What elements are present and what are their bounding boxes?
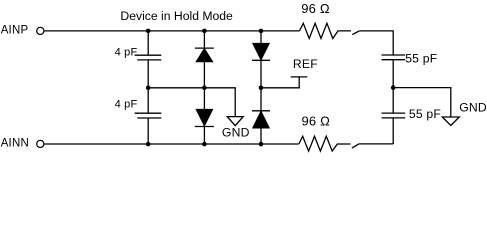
wire bottom rail AINN: [44, 143, 299, 145]
junction dot middle at C1/C2: [146, 86, 151, 91]
svg-text:55 pF: 55 pF: [405, 51, 437, 65]
svg-text:GND: GND: [222, 126, 250, 140]
wire capacitor column left lower: [147, 118, 149, 144]
svg-text:GND: GND: [459, 101, 487, 115]
resistor R1 96 ohm top: [299, 23, 351, 38]
capacitor C1 4pF plates: [135, 54, 162, 56]
wire middle node to GND: [148, 88, 235, 117]
resistor R2 96 ohm bottom: [299, 136, 351, 151]
capacitor C4 55pF plates: [382, 112, 406, 114]
svg-text:AINP: AINP: [1, 25, 29, 37]
svg-text:96 Ω: 96 Ω: [301, 1, 330, 16]
terminal REF tick: [291, 76, 308, 78]
svg-text:4 pF: 4 pF: [115, 47, 138, 59]
wire capacitor column left upper: [147, 31, 149, 55]
capacitor C3 55pF plates: [382, 54, 406, 56]
junction dot top wire at D3: [259, 29, 264, 34]
wire REF branch: [261, 77, 299, 88]
junction dot right cap column middle: [391, 85, 396, 90]
svg-text:55 pF: 55 pF: [409, 107, 441, 121]
ground symbol right: [442, 117, 459, 125]
junction dot bottom wire at D4: [259, 142, 264, 147]
wire capacitor column left middle: [147, 60, 149, 113]
wire after switch bottom: [359, 143, 393, 145]
svg-text:96 Ω: 96 Ω: [302, 114, 331, 129]
junction dot bottom wire at D2: [202, 142, 207, 147]
svg-text:AINN: AINN: [1, 138, 29, 150]
diode D1 left top (pointing up): [195, 47, 214, 49]
svg-text:4 pF: 4 pF: [115, 98, 138, 110]
junction dot bottom wire at C2: [146, 142, 151, 147]
terminal AINN circle: [37, 140, 44, 147]
junction dot top wire at C1: [146, 29, 151, 34]
wire right cap column: [359, 31, 393, 55]
terminal AINP circle: [37, 27, 44, 34]
junction dot middle at D3/D4: [259, 86, 264, 91]
wire GND branch right: [393, 88, 451, 117]
wire top rail AINP: [44, 30, 300, 32]
wire diode column right: [260, 31, 262, 144]
switch S2 blade bottom: [352, 144, 359, 148]
wire diode column left: [203, 31, 205, 144]
capacitor C2 4pF plates: [135, 112, 162, 114]
svg-text:REF: REF: [293, 57, 318, 71]
diode D3 right top (pointing down): [253, 44, 269, 60]
svg-text:Device in Hold Mode: Device in Hold Mode: [120, 9, 233, 23]
diode D2 left bottom (pointing down): [196, 110, 212, 126]
switch S1 blade top: [352, 31, 359, 35]
junction dot middle at D1/D2: [202, 86, 207, 91]
junction dot top wire at D1: [202, 29, 207, 34]
ground symbol middle: [227, 117, 243, 126]
diode D4 right bottom (pointing up): [252, 110, 270, 112]
